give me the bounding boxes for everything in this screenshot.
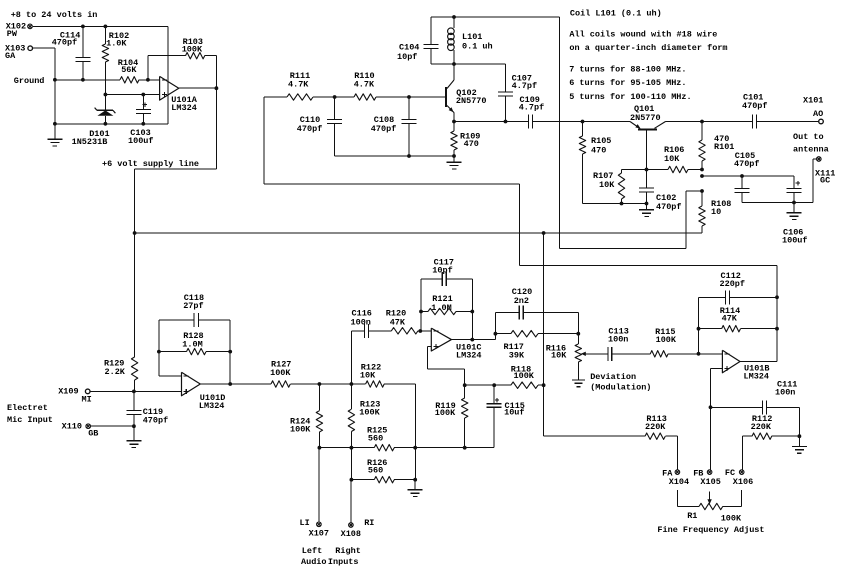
svg-text:X107: X107 [309, 529, 329, 539]
svg-text:Mic Input: Mic Input [7, 415, 53, 425]
svg-text:100n: 100n [351, 317, 371, 327]
svg-text:Audio: Audio [301, 557, 327, 567]
svg-text:L101: L101 [462, 32, 482, 42]
svg-text:10uf: 10uf [504, 408, 524, 418]
svg-text:Ground: Ground [14, 76, 45, 86]
svg-text:100n: 100n [608, 334, 628, 344]
svg-text:GB: GB [88, 429, 98, 439]
svg-text:4.7pf: 4.7pf [519, 103, 545, 113]
svg-text:2N5770: 2N5770 [456, 96, 487, 106]
svg-text:PW: PW [7, 29, 18, 39]
svg-text:10K: 10K [551, 351, 567, 361]
svg-text:100K: 100K [182, 45, 203, 55]
svg-text:100n: 100n [775, 387, 795, 397]
svg-text:Right: Right [335, 546, 361, 556]
svg-text:1.0M: 1.0M [182, 340, 202, 350]
svg-text:100K: 100K [290, 425, 311, 435]
svg-text:220K: 220K [645, 422, 666, 432]
svg-text:100K: 100K [656, 335, 677, 345]
svg-text:R101: R101 [714, 142, 734, 152]
svg-text:47K: 47K [722, 314, 738, 324]
svg-text:470pf: 470pf [656, 202, 682, 212]
svg-text:X108: X108 [341, 529, 361, 539]
svg-text:470pf: 470pf [734, 159, 760, 169]
svg-text:470pf: 470pf [52, 38, 78, 48]
svg-text:AO: AO [813, 109, 823, 119]
svg-text:470pf: 470pf [371, 124, 397, 134]
svg-text:470: 470 [591, 145, 606, 155]
svg-text:4.7K: 4.7K [288, 80, 309, 90]
svg-text:LM324: LM324 [171, 103, 197, 113]
svg-text:220K: 220K [751, 422, 772, 432]
svg-text:1.0K: 1.0K [106, 39, 127, 49]
svg-text:2N5770: 2N5770 [630, 113, 661, 123]
svg-text:Deviation: Deviation [590, 372, 636, 382]
svg-text:39K: 39K [509, 351, 525, 361]
svg-text:4.7K: 4.7K [354, 80, 375, 90]
svg-text:100uf: 100uf [128, 136, 154, 146]
svg-text:100K: 100K [270, 368, 291, 378]
svg-text:1N5231B: 1N5231B [72, 137, 108, 147]
svg-text:on a quarter-inch diameter for: on a quarter-inch diameter form [569, 43, 727, 53]
svg-text:LM324: LM324 [199, 401, 225, 411]
svg-text:7 turns for 88-100 MHz.: 7 turns for 88-100 MHz. [569, 64, 686, 74]
svg-text:27pf: 27pf [183, 301, 203, 311]
svg-text:10: 10 [711, 207, 721, 217]
svg-text:6 turns for 95-105 MHz.: 6 turns for 95-105 MHz. [569, 78, 686, 88]
svg-text:10pf: 10pf [397, 52, 417, 62]
svg-text:+8 to 24 volts in: +8 to 24 volts in [11, 10, 98, 20]
svg-text:220pf: 220pf [720, 279, 746, 289]
svg-text:560: 560 [368, 466, 383, 476]
svg-text:C104: C104 [399, 43, 419, 53]
svg-text:RI: RI [364, 518, 374, 528]
svg-text:100K: 100K [514, 371, 535, 381]
svg-text:Inputs: Inputs [328, 557, 359, 567]
svg-text:LM324: LM324 [744, 372, 770, 382]
svg-text:10K: 10K [664, 154, 680, 164]
svg-text:100K: 100K [721, 513, 742, 523]
svg-text:470: 470 [464, 139, 479, 149]
svg-text:470pf: 470pf [297, 124, 323, 134]
svg-text:MI: MI [82, 394, 92, 404]
svg-text:5 turns for 100-110 MHz.: 5 turns for 100-110 MHz. [569, 92, 691, 102]
svg-text:560: 560 [368, 434, 383, 444]
svg-text:2n2: 2n2 [514, 296, 529, 306]
svg-text:100K: 100K [435, 408, 456, 418]
svg-text:47K: 47K [390, 317, 406, 327]
svg-text:X110: X110 [62, 422, 82, 432]
svg-text:Left: Left [302, 546, 322, 556]
svg-text:10K: 10K [360, 370, 376, 380]
svg-text:4.7pf: 4.7pf [512, 81, 538, 91]
svg-text:Out to: Out to [793, 132, 824, 142]
svg-text:Electret: Electret [7, 403, 48, 413]
svg-text:470pf: 470pf [742, 101, 768, 111]
svg-text:GC: GC [820, 175, 830, 185]
svg-text:+6 volt supply line: +6 volt supply line [102, 159, 199, 169]
svg-text:LM324: LM324 [456, 351, 482, 361]
svg-text:X106: X106 [733, 477, 753, 487]
svg-text:antenna: antenna [793, 145, 829, 155]
svg-text:100uf: 100uf [782, 235, 808, 245]
svg-text:X109: X109 [58, 386, 78, 396]
svg-text:2.2K: 2.2K [105, 367, 126, 377]
svg-text:X105: X105 [700, 477, 720, 487]
svg-text:X104: X104 [669, 477, 689, 487]
svg-text:10K: 10K [599, 180, 615, 190]
svg-text:Fine Frequency Adjust: Fine Frequency Adjust [657, 525, 764, 535]
svg-text:Coil L101 (0.1 uh): Coil L101 (0.1 uh) [570, 9, 662, 19]
svg-text:All coils wound with #18 wire: All coils wound with #18 wire [569, 29, 717, 39]
svg-text:0.1 uh: 0.1 uh [462, 42, 493, 52]
svg-text:100K: 100K [359, 407, 380, 417]
svg-text:GA: GA [5, 51, 16, 61]
svg-text:1.0M: 1.0M [431, 303, 451, 313]
svg-text:LI: LI [300, 518, 310, 528]
svg-text:470pf: 470pf [143, 415, 169, 425]
svg-text:R1: R1 [687, 511, 697, 521]
svg-text:10pf: 10pf [432, 266, 452, 276]
svg-text:56K: 56K [121, 65, 137, 75]
svg-text:X101: X101 [803, 96, 823, 106]
svg-text:(Modulation): (Modulation) [590, 383, 651, 393]
